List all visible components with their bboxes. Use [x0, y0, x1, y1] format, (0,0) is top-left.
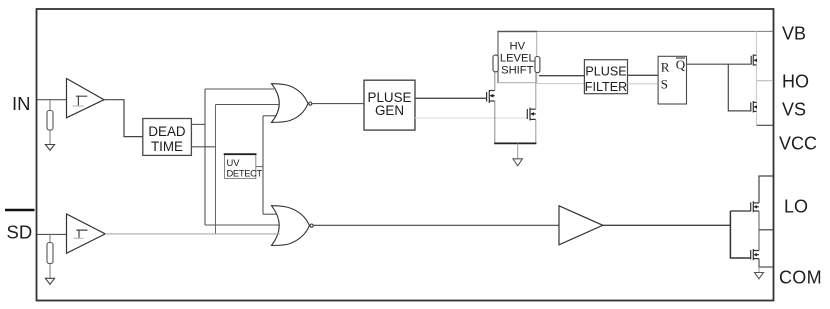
- driver U4 (LO output buffer): [559, 206, 603, 245]
- svg-text:S: S: [661, 77, 668, 92]
- wire Q2 drain to R3: [535, 73, 537, 110]
- wire PLUSE GEN out1 to Q1 gate: [415, 97, 487, 99]
- resistor R2 (left pullup): [493, 55, 498, 72]
- wire to output ground: [758, 267, 760, 273]
- wire bus A to NOR1 input1: [205, 88, 274, 90]
- wire COM stub: [759, 259, 773, 267]
- resistor R4 (SD pulldown): [47, 243, 53, 264]
- wire Q1 drain to R2: [494, 72, 496, 91]
- wire PLUSE FILTER to latch S (faint): [628, 83, 659, 85]
- wire bus B to NOR1 input2: [216, 104, 279, 106]
- wire to level-shift ground: [517, 143, 519, 158]
- block HV LEVEL SHIFT: [498, 32, 537, 83]
- wire HO output rail (faint): [756, 31, 758, 125]
- wire VCC stub: [759, 176, 773, 203]
- block PLUSE FILTER: [584, 60, 627, 94]
- wire resistor R1 to ground: [49, 130, 51, 145]
- svg-text:SD: SD: [7, 222, 33, 243]
- wire vertical bus C: [262, 116, 264, 214]
- svg-text:PLUSE: PLUSE: [585, 65, 626, 79]
- wire IN pulldown top: [49, 100, 51, 111]
- block PLUSE GEN: [364, 80, 415, 130]
- ground (level shift): [513, 159, 522, 166]
- wire VS pin stub: [757, 124, 774, 126]
- wire SD buffer output to NOR2 (faint): [105, 233, 280, 235]
- svg-text:HO: HO: [782, 72, 809, 92]
- pin label SD with overline: [5, 209, 35, 211]
- wire bus A to NOR2 input2: [205, 224, 282, 226]
- svg-text:DEAD: DEAD: [148, 124, 186, 139]
- wire VB rail: [537, 30, 772, 32]
- wire DEAD TIME out1: [191, 123, 205, 125]
- svg-text:Q: Q: [676, 57, 686, 72]
- wire SD pulldown top: [49, 234, 51, 242]
- wire R path to PLUSE FILTER: [539, 75, 584, 77]
- svg-text:LEVEL: LEVEL: [500, 53, 535, 65]
- svg-text:GEN: GEN: [375, 103, 404, 118]
- svg-text:TIME: TIME: [151, 139, 183, 154]
- svg-text:HV: HV: [510, 41, 526, 53]
- wire resistor R4 to ground: [49, 264, 51, 279]
- wire vertical bus A: [204, 89, 206, 225]
- block UV DETECT: [225, 155, 256, 179]
- svg-text:VS: VS: [782, 100, 806, 120]
- wire Q gate bus down: [728, 64, 751, 111]
- svg-text:COM: COM: [779, 268, 822, 288]
- latch U2 (RS flip-flop): [658, 56, 686, 104]
- wire common source rail: [494, 142, 536, 144]
- ground (IN pulldown): [45, 145, 54, 151]
- block DEAD TIME: [143, 119, 192, 156]
- resistor R1 (IN pulldown): [47, 111, 53, 131]
- wire UV DETECT output: [256, 166, 263, 168]
- wire bus C to NOR1 input3: [263, 115, 276, 117]
- wire PLUSE GEN out2 to Q2 gate (faint): [415, 117, 527, 119]
- wire HO pin stub (faint): [757, 80, 774, 82]
- svg-text:IN: IN: [12, 93, 31, 114]
- transistor Q6 (LO low side): [751, 249, 759, 260]
- svg-text:LO: LO: [784, 197, 808, 217]
- wire SD to buffer: [37, 233, 67, 235]
- wire DEAD TIME out2: [191, 146, 215, 148]
- wire LO pin stub: [759, 229, 773, 231]
- transistor Q4 (HO low side): [751, 101, 757, 113]
- wire LO mid rail: [758, 211, 760, 251]
- gate NOR1: [272, 84, 309, 123]
- schmitt buffer U1 (IN): [67, 79, 105, 118]
- hysteresis symbol U1: [76, 96, 87, 106]
- svg-text:SHIFT: SHIFT: [501, 65, 533, 77]
- wire S path to PLUSE FILTER (faint): [536, 83, 584, 85]
- wire NOR2 output to driver: [314, 224, 560, 226]
- svg-text:DETECT: DETECT: [227, 168, 263, 179]
- wire latch Q to output MOSFET gates: [687, 63, 752, 65]
- svg-text:FILTER: FILTER: [585, 80, 627, 94]
- ground (SD pulldown): [45, 278, 54, 284]
- wire NOR1 output to PLUSE GEN: [312, 103, 364, 105]
- svg-text:UV: UV: [227, 157, 241, 168]
- svg-text:VCC: VCC: [779, 134, 817, 154]
- wire U1 output to DEAD TIME: [104, 100, 143, 137]
- wire bus C to NOR2 input1: [263, 213, 277, 215]
- hysteresis symbol U3: [76, 230, 87, 238]
- gate NOR2: [272, 206, 310, 246]
- wire IN to buffer: [37, 99, 67, 101]
- ground (COM): [755, 273, 764, 279]
- transistor Q1 (level shift left): [487, 90, 495, 103]
- wire LO gate bus top: [730, 210, 750, 212]
- wire PLUSE FILTER to latch R: [628, 74, 659, 76]
- schmitt buffer U3 (SD): [67, 214, 106, 253]
- wire driver output to LO gates: [603, 224, 731, 226]
- resistor R3 (right pullup): [535, 57, 540, 73]
- svg-text:R: R: [661, 60, 670, 75]
- wire Q2 source down: [535, 119, 537, 143]
- wire LO gate bus: [730, 211, 750, 258]
- wire Q1 source down: [494, 101, 496, 143]
- transistor Q3 (HO high side): [751, 54, 756, 65]
- wire vertical bus B: [215, 105, 217, 234]
- transistor Q5 (LO high side): [751, 201, 759, 212]
- svg-text:VB: VB: [782, 23, 806, 43]
- transistor Q2 (level shift right): [527, 108, 536, 121]
